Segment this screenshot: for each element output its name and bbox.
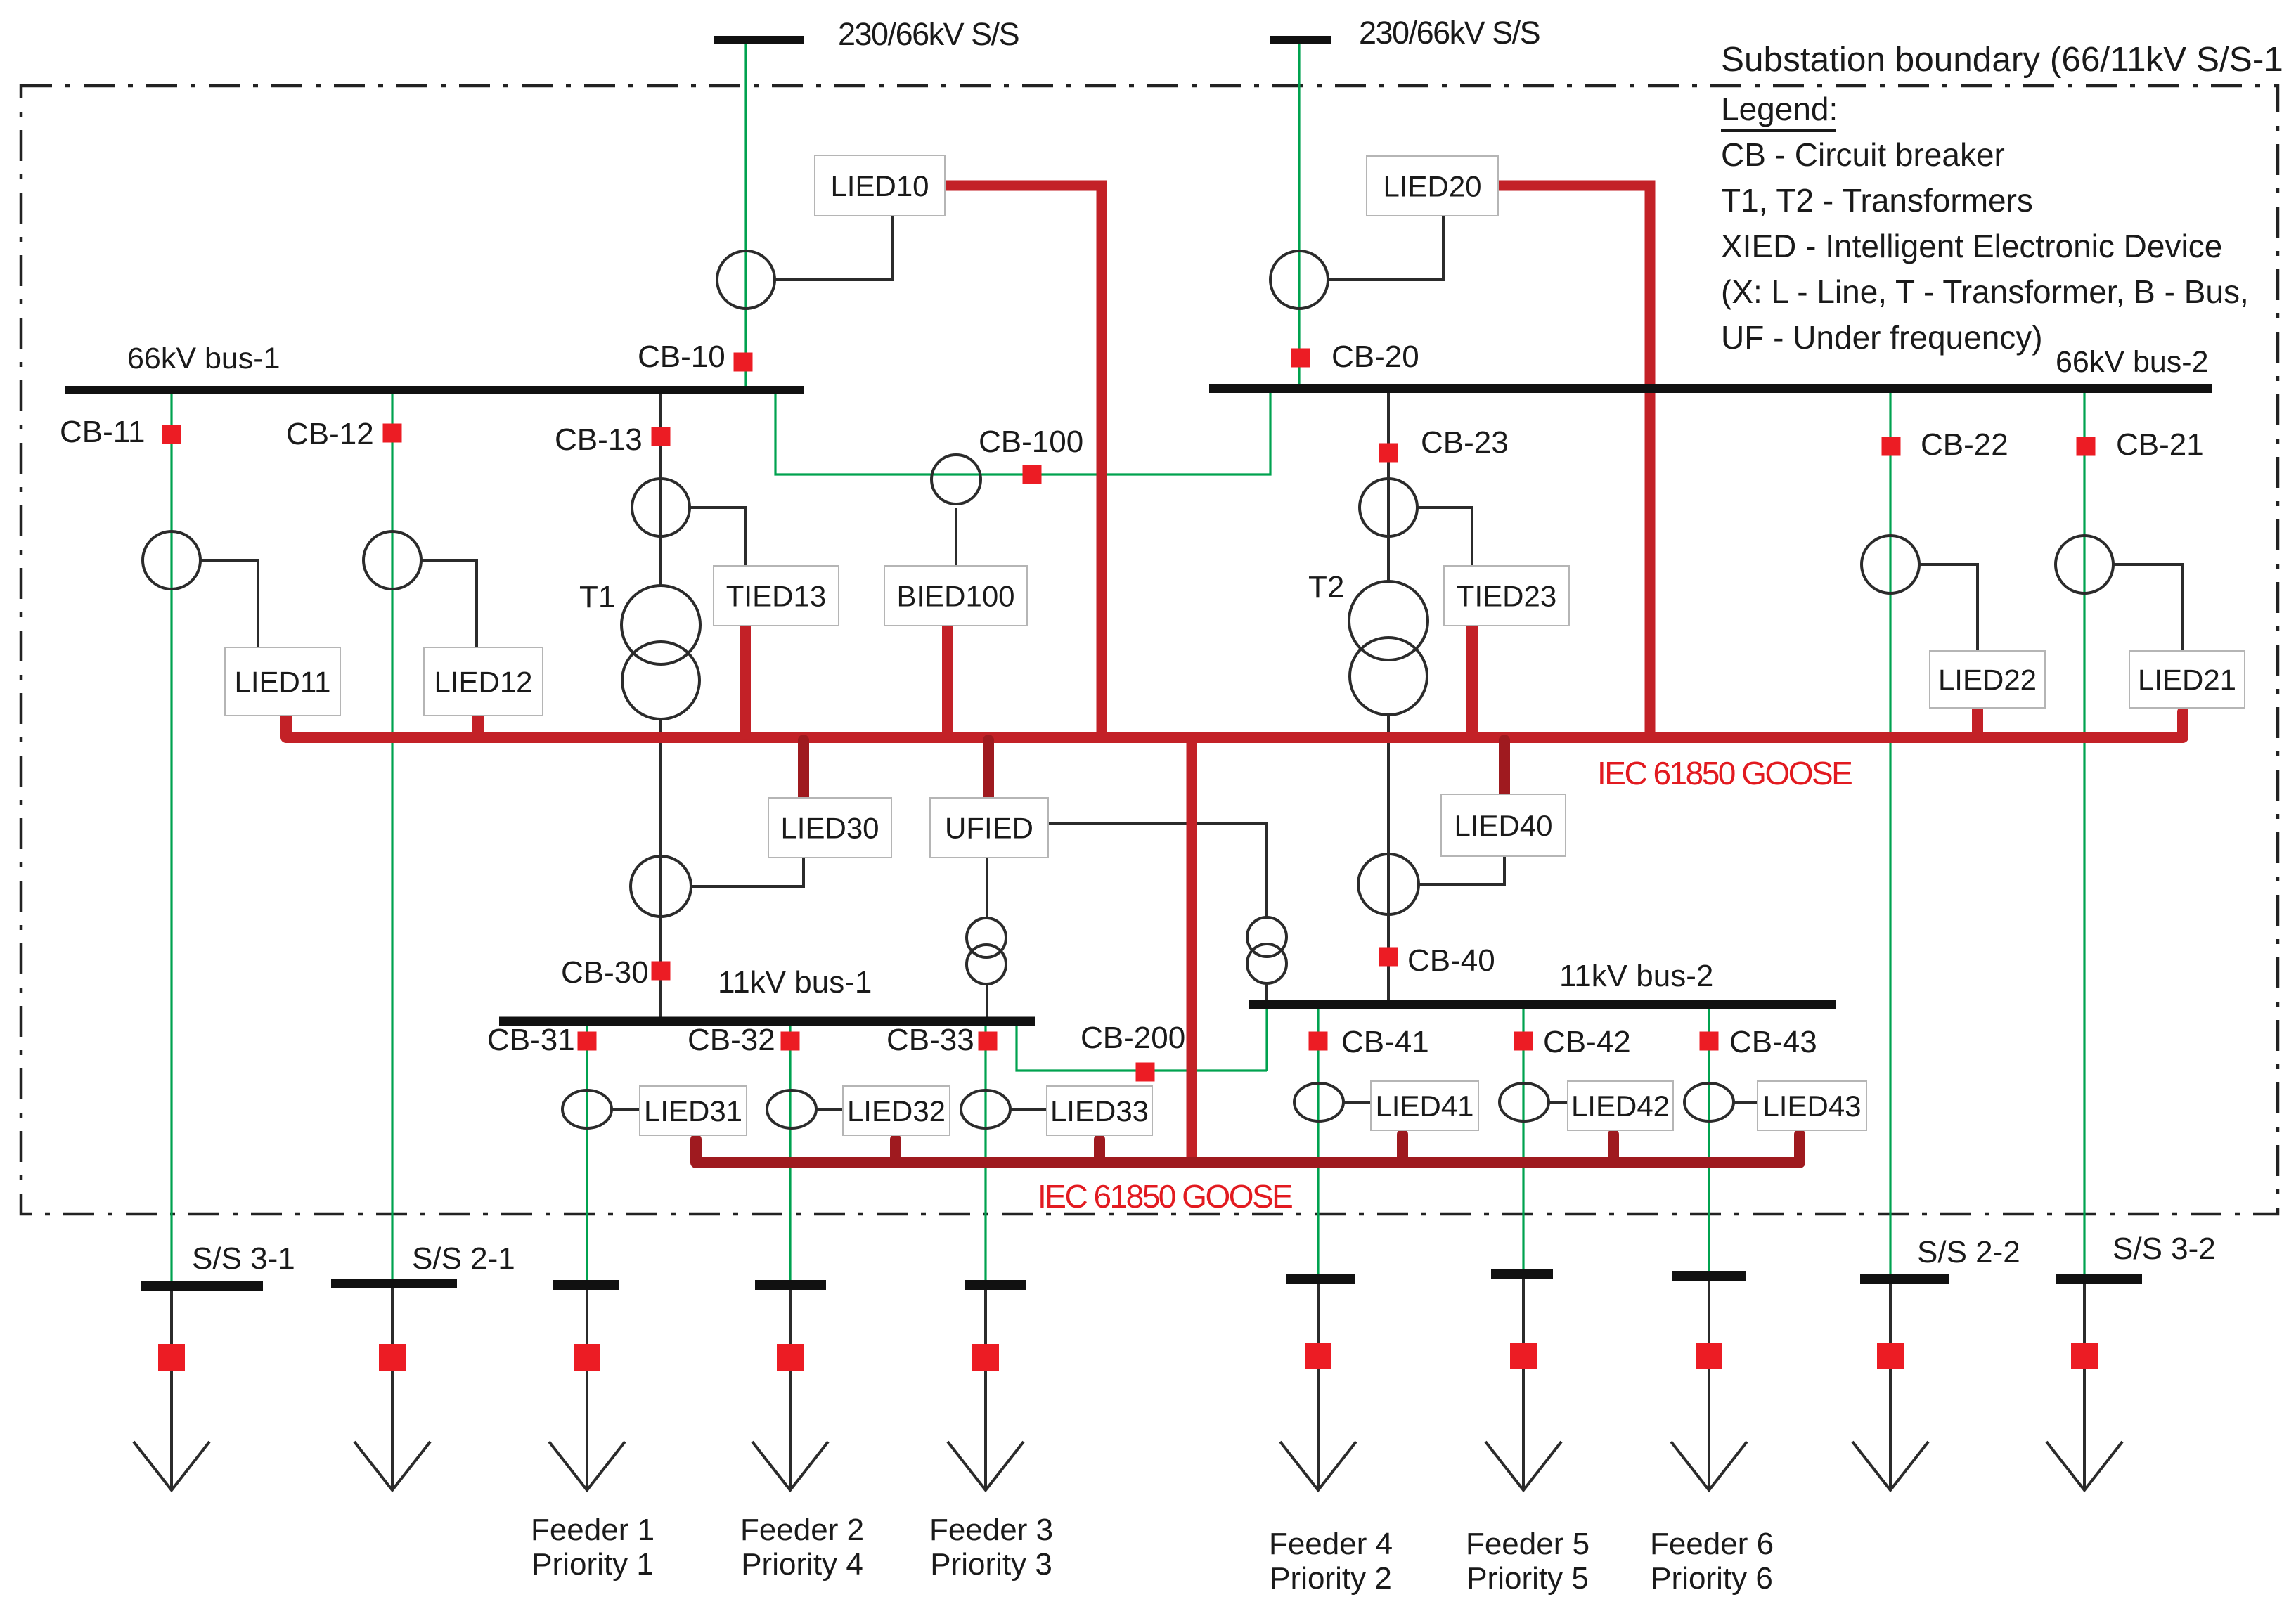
svg-text:LIED32: LIED32	[847, 1094, 946, 1127]
svg-text:XIED - Intelligent Electronic: XIED - Intelligent Electronic Device	[1721, 228, 2222, 264]
svg-text:LIED30: LIED30	[780, 812, 879, 845]
svg-text:CB-100: CB-100	[979, 425, 1083, 459]
svg-text:S/S 3-1: S/S 3-1	[192, 1241, 295, 1276]
svg-text:TIED23: TIED23	[1457, 580, 1556, 613]
svg-text:Feeder 3: Feeder 3	[929, 1513, 1053, 1547]
svg-text:LIED43: LIED43	[1762, 1090, 1861, 1123]
svg-text:LIED20: LIED20	[1383, 170, 1481, 203]
svg-text:Legend:: Legend:	[1721, 91, 1838, 127]
svg-text:CB-41: CB-41	[1341, 1025, 1429, 1059]
svg-text:LIED11: LIED11	[235, 666, 331, 699]
svg-text:UF - Under frequency): UF - Under frequency)	[1721, 319, 2043, 356]
svg-text:CB-42: CB-42	[1543, 1025, 1631, 1059]
svg-text:CB-30: CB-30	[561, 955, 649, 990]
svg-text:LIED42: LIED42	[1571, 1090, 1670, 1123]
svg-text:S/S 3-2: S/S 3-2	[2113, 1232, 2216, 1266]
svg-text:T1, T2 - Transformers: T1, T2 - Transformers	[1721, 182, 2033, 219]
svg-text:CB-23: CB-23	[1421, 425, 1509, 460]
svg-text:CB-200: CB-200	[1081, 1021, 1185, 1055]
svg-text:Feeder 4: Feeder 4	[1269, 1527, 1393, 1561]
svg-text:Feeder 2: Feeder 2	[740, 1513, 864, 1547]
svg-text:Priority 6: Priority 6	[1651, 1561, 1773, 1596]
svg-text:CB-11: CB-11	[60, 415, 145, 449]
svg-text:Feeder 5: Feeder 5	[1466, 1527, 1589, 1561]
svg-text:11kV bus-2: 11kV bus-2	[1559, 959, 1713, 993]
svg-text:CB-21: CB-21	[2116, 427, 2204, 462]
svg-text:66kV bus-2: 66kV bus-2	[2056, 345, 2209, 379]
svg-text:LIED10: LIED10	[830, 169, 929, 202]
svg-text:CB-12: CB-12	[286, 417, 374, 451]
svg-text:Priority 2: Priority 2	[1270, 1561, 1392, 1596]
svg-text:230/66kV S/S: 230/66kV S/S	[1359, 15, 1540, 51]
svg-text:Priority 1: Priority 1	[531, 1547, 654, 1582]
svg-text:S/S 2-2: S/S 2-2	[1917, 1235, 2020, 1269]
svg-text:LIED40: LIED40	[1454, 809, 1552, 842]
svg-text:CB-32: CB-32	[688, 1023, 775, 1057]
svg-text:TIED13: TIED13	[726, 580, 826, 613]
svg-text:LIED41: LIED41	[1375, 1090, 1473, 1123]
svg-text:LIED22: LIED22	[1938, 664, 2037, 697]
svg-text:CB-31: CB-31	[487, 1023, 575, 1057]
svg-text:66kV bus-1: 66kV bus-1	[127, 342, 280, 375]
svg-text:LIED31: LIED31	[644, 1094, 742, 1127]
svg-text:LIED33: LIED33	[1050, 1094, 1149, 1127]
svg-text:T1: T1	[579, 580, 615, 614]
svg-text:LIED21: LIED21	[2138, 664, 2236, 697]
svg-text:S/S 2-1: S/S 2-1	[412, 1241, 515, 1276]
svg-text:UFIED: UFIED	[945, 812, 1033, 845]
svg-text:T2: T2	[1308, 570, 1344, 605]
svg-text:LIED12: LIED12	[434, 666, 532, 699]
svg-text:CB-40: CB-40	[1407, 943, 1495, 978]
svg-text:Substation boundary (66/11kV S: Substation boundary (66/11kV S/S-1	[1721, 40, 2283, 79]
svg-text:CB - Circuit breaker: CB - Circuit breaker	[1721, 136, 2005, 173]
svg-text:CB-10: CB-10	[638, 340, 725, 374]
svg-text:BIED100: BIED100	[896, 580, 1014, 613]
svg-text:IEC 61850 GOOSE: IEC 61850 GOOSE	[1597, 755, 1852, 791]
svg-text:Priority 5: Priority 5	[1466, 1561, 1589, 1596]
svg-text:CB-20: CB-20	[1331, 340, 1419, 374]
svg-text:IEC 61850 GOOSE: IEC 61850 GOOSE	[1038, 1178, 1292, 1215]
svg-text:CB-22: CB-22	[1921, 427, 2008, 462]
svg-text:CB-43: CB-43	[1729, 1025, 1817, 1059]
svg-text:CB-33: CB-33	[886, 1023, 974, 1057]
svg-text:Priority 3: Priority 3	[930, 1547, 1052, 1582]
svg-text:CB-13: CB-13	[555, 422, 643, 457]
svg-text:Feeder 6: Feeder 6	[1650, 1527, 1774, 1561]
svg-text:Priority 4: Priority 4	[741, 1547, 863, 1582]
svg-text:11kV bus-1: 11kV bus-1	[718, 965, 872, 1000]
svg-text:Feeder 1: Feeder 1	[531, 1513, 654, 1547]
svg-text:(X: L - Line, T - Transformer,: (X: L - Line, T - Transformer, B - Bus,	[1721, 273, 2249, 310]
svg-text:230/66kV S/S: 230/66kV S/S	[838, 16, 1019, 52]
